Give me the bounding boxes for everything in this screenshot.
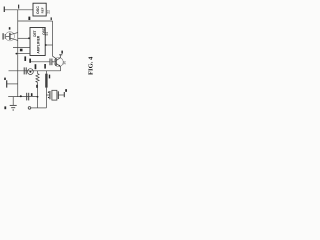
resistor R2 bbox=[45, 71, 47, 74]
svg-text:FIG. 4: FIG. 4 bbox=[87, 56, 94, 75]
svg-text:22: 22 bbox=[47, 10, 51, 14]
wire bus bbox=[17, 10, 19, 97]
terminal 40 bbox=[63, 92, 65, 97]
node bbox=[16, 53, 18, 55]
svg-text:OSC: OSC bbox=[36, 6, 40, 14]
terminal circle bbox=[28, 107, 31, 110]
block 24 text bbox=[33, 27, 46, 53]
capacitor C1 bbox=[2, 33, 4, 39]
label 14 bbox=[4, 106, 6, 109]
label 26 bbox=[20, 49, 23, 52]
wire bbox=[52, 61, 56, 63]
wire bbox=[52, 21, 54, 56]
wire bbox=[5, 9, 33, 11]
label 44 bbox=[31, 93, 33, 96]
crystal Y1 bbox=[49, 91, 51, 99]
wire bbox=[58, 94, 64, 96]
label 38 bbox=[61, 51, 63, 54]
block 20 text bbox=[36, 6, 44, 14]
label 12 bbox=[18, 5, 19, 9]
capacitor C4 bbox=[26, 93, 28, 101]
capacitor C3 bbox=[23, 67, 25, 74]
label 46 bbox=[44, 64, 46, 69]
label 30 bbox=[28, 17, 30, 20]
label 22 bbox=[47, 10, 51, 14]
node bbox=[45, 44, 47, 46]
node bbox=[20, 95, 22, 97]
label 54 bbox=[45, 32, 49, 36]
ground bbox=[12, 97, 14, 106]
svg-text:54: 54 bbox=[45, 32, 49, 36]
wire bbox=[13, 47, 30, 49]
svg-text:REF: REF bbox=[40, 7, 44, 13]
input terminal 16 bbox=[6, 80, 8, 87]
wire bbox=[31, 107, 46, 109]
label 34 bbox=[24, 56, 26, 61]
wire bbox=[46, 94, 50, 96]
input terminal 12 bbox=[3, 7, 5, 13]
block 20 bbox=[33, 3, 46, 16]
wire rail bbox=[8, 96, 37, 98]
wire bbox=[18, 20, 53, 22]
wire bbox=[30, 61, 50, 63]
wire bbox=[7, 83, 18, 85]
svg-text:36: 36 bbox=[63, 61, 67, 65]
node bbox=[28, 37, 30, 39]
wire bbox=[18, 37, 30, 39]
label near R2 bbox=[49, 75, 50, 79]
transistor Q1 bbox=[5, 32, 14, 41]
block 24 bbox=[30, 28, 45, 56]
wire bbox=[45, 44, 52, 46]
label 44 bbox=[35, 64, 37, 69]
transistor Q2 bbox=[54, 57, 63, 66]
label 24 bbox=[9, 27, 11, 29]
wire bbox=[16, 53, 31, 55]
component circle bbox=[28, 69, 34, 75]
wire bbox=[9, 70, 61, 72]
svg-text:AMPLIFIER: AMPLIFIER bbox=[37, 35, 41, 53]
label 42 bbox=[29, 59, 31, 63]
label 16 bbox=[4, 78, 6, 80]
label near R1 bbox=[36, 85, 38, 88]
node bbox=[37, 96, 39, 98]
label 40 bbox=[65, 89, 67, 92]
capacitor C2 bbox=[49, 59, 51, 66]
label 32 bbox=[51, 17, 52, 20]
wire bbox=[5, 35, 9, 37]
label 36 bbox=[63, 61, 67, 65]
resistor R1 bbox=[37, 71, 39, 74]
